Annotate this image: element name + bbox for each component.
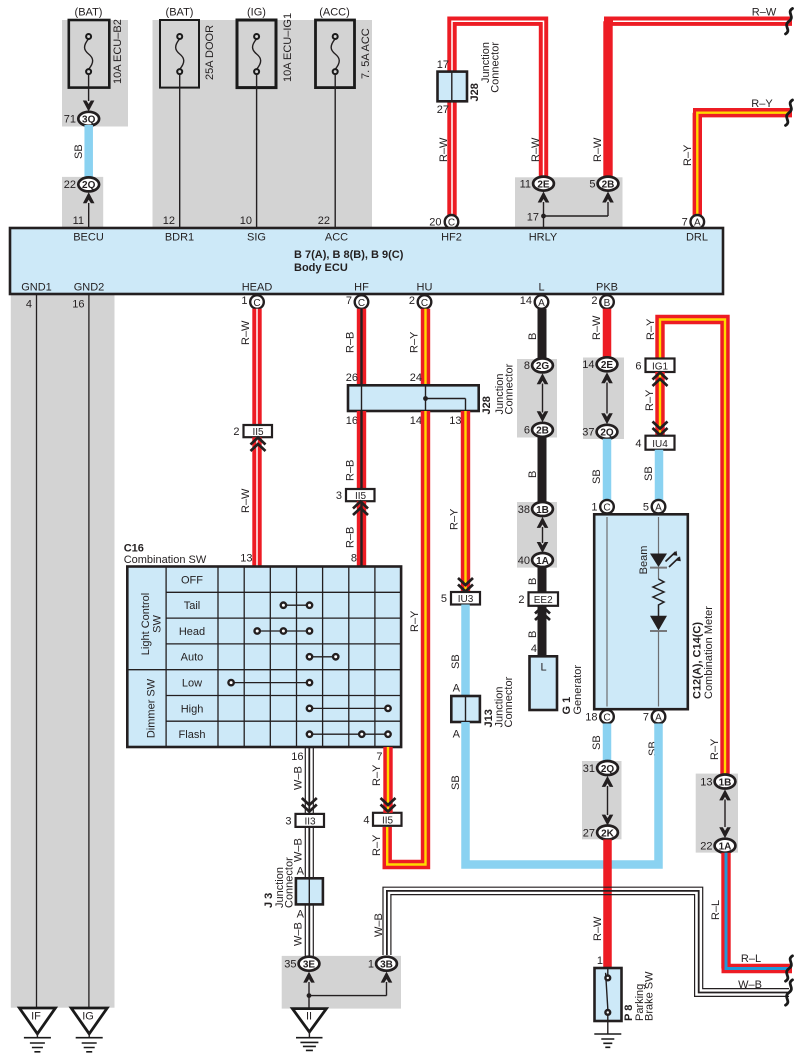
svg-text:HF: HF [354,282,369,294]
svg-text:SW: SW [152,615,164,633]
svg-text:5: 5 [589,178,595,190]
svg-text:SB: SB [450,654,462,669]
resistor meter [653,579,664,616]
svg-text:R–B: R–B [345,460,357,481]
arrow into 3Q [83,101,95,112]
svg-text:27: 27 [583,827,595,839]
svg-text:A: A [297,866,305,878]
connector IU4 [646,436,675,450]
wire R-W HF2 leg below J28 [447,101,456,215]
junction connector J28 top [438,72,468,102]
svg-text:R–Y: R–Y [751,98,773,110]
svg-text:C12(A), C14(C): C12(A), C14(C) [692,622,704,699]
wire SB IU4 to meter 5A [655,450,664,500]
break symbol R-Y [786,100,793,125]
svg-text:3E: 3E [303,960,316,971]
arrow into 2Q lower [602,776,614,787]
svg-text:Connector: Connector [490,42,502,93]
svg-text:3B: 3B [380,960,393,971]
pin circle 20 C HF2 [445,215,459,229]
junction connector J13 [451,696,480,722]
svg-text:2B: 2B [602,179,615,190]
pin circle 2 B PKB [600,295,614,309]
connector 2B (HRLY) [598,177,619,191]
harness shade 2Q/2K column [582,761,622,839]
svg-text:Low: Low [182,678,202,690]
svg-text:R–W: R–W [530,137,542,162]
svg-text:A: A [453,683,461,695]
pin circle 7 A DRL [691,215,705,229]
svg-text:R–W: R–W [240,488,252,513]
fuse 25A DOOR [160,20,199,88]
svg-text:12: 12 [163,215,175,227]
pin circle 7 A meter [652,710,666,724]
svg-text:B: B [527,471,539,478]
chevron into IU3 [458,578,473,592]
svg-text:1: 1 [597,955,603,967]
wire R-W PKB [603,309,612,358]
connector 1B right [715,775,736,789]
ground parking brake [594,1021,621,1047]
svg-text:R–Y: R–Y [709,738,721,760]
svg-text:Beam: Beam [638,546,650,575]
pin circle 18 C meter [600,710,614,724]
svg-text:10A ECU–B2: 10A ECU–B2 [112,19,124,84]
wire between 1B and 1A right [724,800,726,828]
svg-text:27: 27 [437,104,449,116]
switch contacts Head [255,628,313,633]
connector IU3 [451,592,480,605]
svg-text:Body ECU: Body ECU [294,262,348,274]
svg-text:(IG): (IG) [247,7,266,19]
parking brake switch P8 [595,968,622,1021]
svg-text:B: B [604,298,611,309]
svg-text:38: 38 [518,504,530,516]
wire R-Y J28 pin13 to IU3 [461,411,470,592]
svg-text:2B: 2B [536,426,549,437]
svg-text:J28: J28 [481,396,493,414]
svg-text:PKB: PKB [596,282,618,294]
svg-text:HEAD: HEAD [242,282,273,294]
svg-text:11: 11 [520,178,531,190]
svg-text:7. 5A ACC: 7. 5A ACC [360,28,372,79]
pin circle 1 C HEAD [250,295,264,309]
svg-text:SB: SB [643,466,655,481]
connector 1A right [715,839,736,853]
svg-text:2: 2 [518,594,524,606]
generator G1 box [530,656,558,710]
connector 1B [532,502,553,516]
arrow into 1B [537,517,549,528]
svg-text:3: 3 [336,490,342,502]
pin circle 14 A L [535,295,549,309]
wire R-Y J28 pin14 long + II5 U-turn [387,411,425,865]
svg-text:7: 7 [346,295,352,307]
switch contacts Flash [307,732,391,737]
connector II5 pin4 [373,813,402,826]
svg-text:R–W: R–W [591,315,603,340]
connector 2E (HRLY) [533,177,554,191]
svg-text:16: 16 [291,751,303,763]
fuse 10A ECU-B2 [69,20,110,88]
wire R-W to right break [604,17,792,26]
break symbol W-B [786,980,793,1005]
svg-text:6: 6 [635,360,641,372]
chevron into II5 pin3 [353,502,368,516]
svg-text:R–B: R–B [345,527,357,548]
svg-text:W–B: W–B [738,979,762,991]
connector 2Q lower [597,761,618,775]
svg-text:C16: C16 [124,543,144,555]
break symbol R-L [786,956,793,981]
break symbol R-W [786,9,793,34]
node ground join [307,993,312,998]
wire R-L 1A to break [722,853,793,969]
svg-text:14: 14 [520,295,532,307]
svg-text:7: 7 [643,712,649,724]
svg-text:B: B [527,631,539,638]
svg-text:R–W: R–W [752,7,777,19]
pin circle 7 C HF [355,295,369,309]
svg-text:1: 1 [241,295,247,307]
diode meter [650,616,667,631]
wire B 1A to EE2 [538,567,547,592]
svg-text:6: 6 [524,425,530,437]
pin circle 2 C HU [418,295,432,309]
connector IG1 [646,359,675,373]
wire R-W 2B vertical [603,21,612,177]
connector 2Q top-left [78,177,99,191]
junction connector J28 middle [348,385,479,411]
connector 2Q PKB [597,425,618,439]
wire HRLY junction [544,202,609,228]
svg-text:22: 22 [64,179,76,191]
svg-text:Head: Head [179,626,205,638]
wire W-B 3B up-over-down to break [383,887,789,996]
svg-text:(ACC): (ACC) [319,7,350,19]
svg-text:2: 2 [591,295,597,307]
connector 2G [532,358,553,372]
svg-text:8: 8 [351,553,357,565]
svg-text:W–B: W–B [293,922,305,946]
svg-text:31: 31 [583,763,595,775]
svg-text:W–B: W–B [373,913,385,937]
svg-text:3: 3 [285,815,291,827]
svg-text:GND2: GND2 [74,282,105,294]
svg-text:Brake SW: Brake SW [644,971,656,1021]
wire B EE2 to generator [538,606,547,657]
svg-text:26: 26 [346,372,358,384]
svg-text:Combination SW: Combination SW [124,554,207,566]
svg-text:4: 4 [531,643,537,655]
svg-text:A: A [453,729,461,741]
wire fuse1 to 3Q [88,74,90,101]
svg-text:R–W: R–W [240,320,252,345]
arrow into 2E [538,192,550,203]
svg-text:R–Y: R–Y [409,610,421,632]
ground IF [19,1008,55,1052]
wire between 1B and 1A [542,527,544,543]
svg-text:5: 5 [441,593,447,605]
arrow into 3B [381,972,393,983]
svg-text:5: 5 [643,502,649,514]
wire R-W HF2 up-over to 2E [452,21,544,177]
svg-text:22: 22 [700,841,712,853]
svg-text:C: C [358,298,365,309]
svg-text:J28: J28 [469,83,481,101]
svg-text:R–Y: R–Y [682,144,694,166]
wire R-B to comb SW pin8 [357,501,366,566]
connector 3Q [78,112,99,126]
svg-text:2K: 2K [601,828,615,839]
svg-text:25A DOOR: 25A DOOR [204,25,216,80]
connector II3 [296,814,325,827]
harness shade 1B/1A center column [517,502,557,568]
svg-text:HU: HU [417,282,433,294]
wire between 2G and 2B [542,384,544,413]
svg-text:Connector: Connector [504,363,516,414]
wire between 2Q and 2K [607,786,609,815]
svg-text:IU3: IU3 [458,594,474,605]
pin circle 1 C meter [600,500,614,514]
wire fuse4 to ACC [334,74,336,228]
connector 2K [597,826,618,840]
fuse 10A ECU-IG1 [237,20,276,88]
wire SB fuse column [84,125,93,178]
svg-text:1B: 1B [536,505,549,516]
svg-text:2G: 2G [536,361,550,372]
svg-text:2E: 2E [537,179,550,190]
pin circle 5 A meter [652,500,666,514]
arrow into 2E PKB [601,372,613,383]
svg-text:W–B: W–B [293,766,305,790]
svg-text:14: 14 [582,359,594,371]
svg-text:14: 14 [410,415,422,427]
svg-text:R–W: R–W [592,916,604,941]
wire R-Y IG1 feed [660,320,725,775]
svg-text:SB: SB [591,469,603,484]
ground IG [71,1008,107,1052]
svg-text:B: B [527,333,539,340]
svg-text:1A: 1A [536,556,549,567]
fuse 7.5A ACC [316,20,355,88]
wire R-Y IG1 to IU4 [655,372,664,436]
svg-text:24: 24 [410,372,422,384]
svg-text:BECU: BECU [73,232,104,244]
svg-text:3Q: 3Q [82,115,96,126]
connector 1A [532,553,553,567]
arrow into 2G [537,373,549,384]
arrow into 3E [303,972,315,983]
meter internal wire from 5A [658,517,660,554]
svg-text:SIG: SIG [247,232,266,244]
svg-text:2: 2 [409,295,415,307]
svg-text:II3: II3 [304,816,316,827]
arrow into 1B right [719,789,731,800]
svg-text:2Q: 2Q [82,180,96,191]
wire B 2B to 1B [538,437,547,503]
svg-text:C: C [603,503,610,514]
svg-text:HRLY: HRLY [529,232,558,244]
switch contacts Auto [307,654,339,659]
LED Beam [650,551,681,568]
wire LED to resistor [658,568,660,579]
wire W-B J3 to 3E [305,904,313,956]
wire SB 18C to 2Q [603,724,612,762]
svg-text:ACC: ACC [325,232,348,244]
svg-text:DRL: DRL [686,232,708,244]
harness shade 2G/2B column [517,359,557,438]
svg-text:SB: SB [591,735,603,750]
svg-text:C: C [421,298,428,309]
node HRLY split [541,214,546,219]
svg-text:High: High [181,703,204,715]
chevron into IU4 [653,422,668,436]
junction connector J3 [296,878,323,904]
svg-text:13: 13 [240,553,252,565]
svg-text:7: 7 [376,751,382,763]
svg-text:(BAT): (BAT) [166,7,194,19]
svg-text:8: 8 [524,360,530,372]
arrow into 2B [602,192,614,203]
svg-text:10: 10 [240,215,252,227]
connector 3B [376,957,397,971]
wire R-Y DRL [693,113,792,216]
wire W-B II3 to J3 [305,827,313,878]
svg-text:L: L [538,282,544,294]
svg-text:Connector: Connector [503,676,515,727]
wire R-W HEAD upper [252,309,261,425]
arrow into 2Q [83,192,95,203]
svg-text:II5: II5 [382,815,394,826]
svg-text:16: 16 [72,299,84,311]
svg-text:11: 11 [73,215,84,227]
svg-text:B 7(A), B 8(B), B 9(C): B 7(A), B 8(B), B 9(C) [294,249,404,261]
svg-text:B: B [527,578,539,585]
connector II5 pin2 [244,425,273,437]
meter internal wire 1C-18C [606,517,608,707]
svg-text:A: A [655,713,662,724]
svg-text:II: II [306,1011,312,1023]
svg-text:SB: SB [73,144,85,159]
wire between 2E and 2Q PKB [606,383,608,414]
svg-text:(BAT): (BAT) [75,7,103,19]
wire R-Y comb7 to II5 [383,747,392,813]
svg-text:R–Y: R–Y [644,389,656,411]
svg-text:2Q: 2Q [600,428,614,439]
svg-text:18: 18 [585,712,597,724]
svg-text:A: A [297,909,305,921]
svg-text:4: 4 [635,438,641,450]
svg-text:R–W: R–W [592,137,604,162]
chevron into II3 [302,798,317,812]
harness shade PKB 2E/2Q [583,358,624,440]
svg-text:R–Y: R–Y [371,834,383,856]
svg-text:SB: SB [450,775,462,790]
svg-text:2E: 2E [601,360,614,371]
svg-text:Generator: Generator [572,665,584,715]
svg-text:R–Y: R–Y [409,331,421,353]
svg-text:BDR1: BDR1 [165,232,194,244]
svg-text:OFF: OFF [181,574,203,586]
wire R-B HF lower [357,411,366,489]
ground II [292,1009,326,1051]
svg-text:1: 1 [591,502,597,514]
harness shade 2Q/BECU column [62,177,103,228]
svg-text:2Q: 2Q [601,764,615,775]
svg-text:71: 71 [64,114,76,126]
connector 2E PKB [597,357,618,371]
svg-text:R–Y: R–Y [645,318,657,340]
svg-text:13: 13 [449,415,461,427]
arrow into 2K [602,815,614,826]
wire fuse3 to SIG [256,74,258,228]
svg-text:Combination Meter: Combination Meter [703,606,715,699]
wire R-W HEAD lower [252,437,261,566]
svg-text:IG1: IG1 [652,361,669,372]
wire 2Q to BECU [88,203,90,228]
wire SB 2Q to meter 1C [603,439,612,500]
svg-text:35: 35 [284,959,296,971]
connector EE2 [529,592,559,606]
svg-text:1B: 1B [719,777,732,788]
chevron into IG1 [653,373,668,387]
svg-text:C: C [603,713,610,724]
harness shade fuses 2-4 block [153,20,373,228]
svg-text:IG: IG [82,1011,94,1023]
switch contacts Tail [281,603,313,608]
arrow into 1A right [719,827,731,838]
svg-text:A: A [538,298,545,309]
arrow into 2B lower [537,411,549,422]
svg-text:Tail: Tail [184,600,201,612]
connector II5 pin3 [346,489,375,501]
svg-text:13: 13 [700,776,712,788]
svg-text:IU4: IU4 [652,439,668,450]
arrow into 2Q PKB [601,413,613,424]
svg-text:C: C [253,298,260,309]
harness shade HRLY 2E/2B [515,177,623,228]
svg-text:R–B: R–B [345,332,357,353]
svg-text:Auto: Auto [181,652,204,664]
svg-text:40: 40 [518,555,530,567]
wire B from L pin [538,309,547,359]
switch contacts High [307,706,391,711]
chevron into II5 [251,438,266,452]
svg-text:HF2: HF2 [441,232,462,244]
svg-text:R–L: R–L [741,953,761,965]
svg-text:4: 4 [26,299,32,311]
combination meter box [594,514,688,709]
svg-text:1A: 1A [719,842,732,853]
harness shade 3E/3B block [282,956,401,1009]
wire fuse2 to BDR1 [179,74,181,228]
wire diode to 7A [658,631,660,707]
arrow into 1A [537,542,549,553]
Body ECU box [10,228,723,294]
svg-text:16: 16 [346,415,358,427]
wire R-B HF upper [357,309,366,386]
harness shade fuse1 column [62,20,128,127]
harness shade 1B/1A right column [696,774,738,853]
svg-text:R–Y: R–Y [371,764,383,786]
wire ground join 3E/3B [309,982,387,1009]
svg-text:Light Control: Light Control [140,593,152,655]
svg-text:Connector: Connector [284,857,296,908]
svg-text:4: 4 [363,814,369,826]
svg-text:10A ECU–IG1: 10A ECU–IG1 [282,13,294,82]
svg-text:EE2: EE2 [534,595,553,606]
